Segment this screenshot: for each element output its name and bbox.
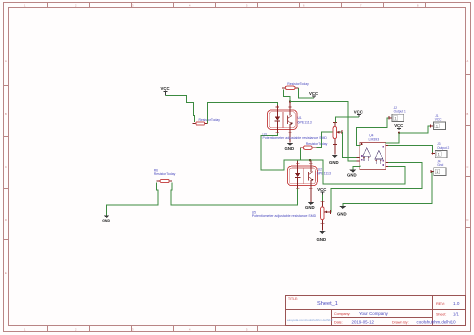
optocoupler U2	[287, 160, 317, 189]
frame zone ticks top	[48, 3, 426, 8]
wire U2 collector net to LM393 IN2 (loop)	[298, 160, 405, 184]
svg-text:Drawn By:: Drawn By:	[392, 321, 409, 325]
wire VCC3 to U3 top	[335, 117, 359, 122]
resistor R6	[156, 179, 172, 182]
value label R3 ResistorToday	[306, 142, 328, 146]
svg-text:Output 1: Output 1	[394, 110, 406, 114]
title block easyeda link	[287, 318, 333, 322]
resistor R5	[193, 122, 208, 125]
connector J4	[434, 168, 446, 176]
J1 designator and name	[435, 114, 442, 122]
svg-text:C: C	[5, 165, 7, 169]
wire U1 LED cathode to U2 LED anode	[261, 133, 298, 170]
svg-text:2019-05-12: 2019-05-12	[352, 320, 375, 325]
wire LM393 to U5 wiper (loop)	[330, 162, 422, 212]
svg-text:1.0: 1.0	[453, 301, 460, 306]
svg-text:Company:: Company:	[334, 312, 350, 316]
J4 designator and name	[437, 160, 443, 168]
svg-text:VCC: VCC	[435, 118, 442, 122]
node junction U1 collector	[289, 100, 291, 102]
U2 designator and part name	[317, 167, 331, 175]
U3 designator and part name	[263, 133, 328, 141]
svg-text:ResistorToday: ResistorToday	[154, 172, 176, 176]
svg-text:ResistorToday: ResistorToday	[199, 118, 221, 122]
title block Sheet	[436, 312, 459, 317]
svg-text:easyeda.com/coolshubhm.delhi10: easyeda.com/coolshubhm.delhi10	[287, 318, 333, 322]
trimmer U5	[320, 201, 330, 224]
wire junction to R1 left	[284, 89, 290, 101]
svg-text:VCC: VCC	[394, 123, 403, 128]
svg-text:Your Company: Your Company	[359, 311, 389, 316]
wire U2 LED cathode to R6 right	[171, 183, 298, 206]
node junction U2 collector	[309, 159, 311, 161]
svg-text:A: A	[5, 59, 7, 63]
title block Date	[334, 320, 456, 325]
svg-text:1: 1	[395, 116, 397, 120]
title block sheet name	[317, 301, 338, 307]
U5 designator and part name	[252, 211, 317, 219]
svg-text:VCC: VCC	[161, 86, 170, 91]
svg-text:Output 2: Output 2	[437, 146, 449, 150]
svg-text:6PE1113: 6PE1113	[317, 172, 331, 176]
pin stub J3	[432, 152, 436, 155]
svg-text:Sheet_1: Sheet_1	[317, 301, 338, 307]
wire U3 bottom to GND2	[334, 145, 336, 155]
power VCC2	[309, 91, 318, 98]
wire VCC1 to R5 left	[166, 96, 195, 122]
ground GND2 (U3)	[329, 155, 339, 165]
ground GND5 (left)	[102, 215, 110, 223]
svg-text:C: C	[467, 165, 469, 169]
U4 pin number marks	[361, 146, 384, 166]
svg-text:B: B	[5, 112, 7, 116]
svg-text:E: E	[5, 271, 7, 275]
pin stub J1	[430, 124, 434, 127]
ground GND6 (U2 emitter)	[305, 202, 315, 210]
title block TITLE label	[288, 297, 298, 301]
svg-text:GND: GND	[337, 212, 347, 217]
pin stub J4	[430, 170, 434, 173]
J2 designator and name	[394, 106, 406, 114]
U4 designator and part name	[369, 134, 380, 142]
svg-text:LM393: LM393	[369, 137, 380, 141]
svg-text:GND: GND	[305, 205, 315, 210]
trimmer U3	[333, 123, 342, 145]
wire U3 wiper to LM393 IN1	[343, 132, 360, 157]
wire R1 right to VCC2	[299, 88, 314, 98]
title block	[286, 296, 466, 326]
svg-text:coolshubhm.delhi10: coolshubhm.delhi10	[417, 320, 457, 325]
svg-text:Gnd: Gnd	[437, 163, 443, 167]
connector J2	[392, 114, 404, 121]
wire R3 right to U3 wiper net	[317, 132, 343, 148]
title block Company	[334, 311, 389, 316]
optocoupler U1	[268, 102, 298, 143]
svg-text:VCC: VCC	[317, 187, 326, 192]
J3 designator and name	[437, 142, 449, 150]
frame zone ticks left	[4, 86, 9, 240]
resistor R3	[300, 146, 317, 149]
frame zone ticks bottom	[48, 326, 258, 331]
svg-text:Potentiometer adjustable resis: Potentiometer adjustable resistance SMD	[263, 136, 328, 140]
svg-text:ResistorToday: ResistorToday	[287, 82, 309, 86]
svg-text:1: 1	[438, 153, 440, 157]
svg-text:GND: GND	[347, 173, 357, 178]
wire J4 to GND7	[343, 172, 434, 206]
svg-text:D: D	[467, 218, 469, 222]
U1 emitter pin	[289, 130, 291, 142]
node junction VCC4	[398, 132, 400, 134]
svg-text:ResistorToday: ResistorToday	[306, 142, 328, 146]
power VCC4	[394, 123, 403, 130]
title block REV	[436, 301, 460, 306]
wire U1 collector to LM393 IN (wire A)	[290, 102, 360, 162]
wire R3 left lead down to collector net	[299, 148, 301, 161]
svg-text:Potentiometer adjustable resis: Potentiometer adjustable resistance SMD	[252, 214, 317, 218]
connector J3	[435, 150, 447, 157]
value label R5 ResistorToday	[199, 118, 221, 122]
pin stub J2	[388, 116, 392, 119]
wire VCC4 to J1	[399, 126, 433, 133]
wire R6 left to GND5	[107, 183, 159, 216]
comparator U4 LM393	[357, 143, 389, 170]
svg-text:1/1: 1/1	[453, 312, 459, 317]
svg-text:6PE1113: 6PE1113	[298, 121, 312, 125]
svg-text:Sheet:: Sheet:	[436, 313, 446, 317]
power VCC1	[161, 86, 170, 96]
svg-text:REV:: REV:	[436, 301, 445, 306]
svg-text:GND: GND	[285, 146, 295, 151]
svg-text:TITLE:: TITLE:	[288, 297, 298, 301]
wire LM393 OUT2 to J3	[388, 145, 435, 153]
wire LM393 GND pin	[353, 165, 360, 169]
value label R1 ResistorToday	[287, 82, 309, 86]
ground GND7 (J4 net)	[337, 206, 347, 217]
ground GND1 (U1 emitter)	[285, 143, 295, 151]
U2 emitter pin	[310, 186, 312, 202]
svg-text:D: D	[5, 218, 7, 222]
svg-text:Date:: Date:	[334, 321, 343, 325]
frame zone ticks right	[466, 75, 471, 228]
svg-text:GND: GND	[329, 160, 339, 165]
svg-text:1: 1	[436, 170, 438, 174]
node junction LM393 pin1	[360, 143, 362, 145]
svg-text:GND: GND	[102, 219, 110, 223]
resistor R1	[282, 86, 299, 89]
R6 designator and value	[154, 168, 176, 176]
ground GND3 (LM393)	[347, 170, 357, 178]
svg-text:GND: GND	[317, 237, 327, 242]
svg-text:VCC: VCC	[309, 91, 318, 96]
wire VCC4 to LM393 V+	[386, 133, 399, 143]
ground GND4 (U5)	[317, 231, 327, 242]
connector J1	[433, 122, 445, 130]
U1 designator and part name	[298, 116, 312, 124]
svg-text:VCC: VCC	[354, 110, 363, 115]
svg-text:B: B	[467, 112, 469, 116]
svg-text:1: 1	[436, 124, 438, 128]
svg-text:U1: U1	[298, 116, 302, 120]
svg-text:A: A	[467, 59, 469, 63]
wire LM393 OUT1 to J2	[357, 118, 392, 146]
power VCC5	[317, 187, 326, 201]
wire U5 bottom to GND4	[321, 224, 323, 231]
wire R5 right to U1 LED anode	[208, 103, 278, 124]
power VCC3	[354, 110, 363, 118]
